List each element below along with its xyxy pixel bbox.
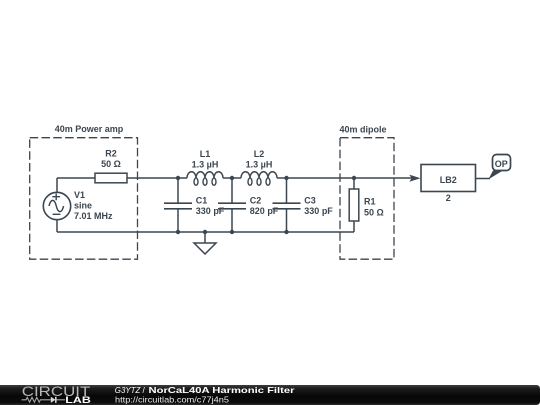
inductor L1 xyxy=(178,172,232,186)
footer title xyxy=(115,385,296,395)
svg-text:R2: R2 xyxy=(105,149,117,159)
svg-text:R1: R1 xyxy=(364,197,376,207)
block LB2 xyxy=(421,165,476,192)
svg-text:C1: C1 xyxy=(196,195,208,205)
voltage source V1 xyxy=(43,192,70,219)
svg-text:40m Power amp: 40m Power amp xyxy=(55,124,124,134)
svg-text:330 pF: 330 pF xyxy=(196,206,225,216)
svg-text:1.3 µH: 1.3 µH xyxy=(246,160,273,170)
svg-text:C2: C2 xyxy=(250,195,262,205)
svg-text:V1: V1 xyxy=(74,190,85,200)
node B junction dot xyxy=(230,176,234,180)
svg-text:OP: OP xyxy=(495,159,508,169)
node A junction dot xyxy=(176,176,180,180)
inductor L2 xyxy=(232,172,287,186)
label C3 value xyxy=(304,195,333,215)
label V1 (name, type, value) xyxy=(74,190,113,221)
node F junction dot (ground) xyxy=(203,230,207,234)
svg-text:L2: L2 xyxy=(254,149,265,159)
node C junction dot xyxy=(284,176,288,180)
resistor R2 xyxy=(95,173,127,183)
wire LB2 output xyxy=(476,178,491,180)
svg-text:50 Ω: 50 Ω xyxy=(364,207,384,217)
node H junction dot (C3 bottom) xyxy=(284,230,288,234)
wire node D to LB2 xyxy=(354,177,416,179)
svg-text:330 pF: 330 pF xyxy=(304,206,333,216)
svg-text:1.3 µH: 1.3 µH xyxy=(192,160,219,170)
wire V1 top lead xyxy=(56,178,58,192)
logo CircuitLab xyxy=(22,384,91,405)
svg-text:40m dipole: 40m dipole xyxy=(339,125,386,135)
label L1 value xyxy=(192,149,219,170)
svg-text:LB2: LB2 xyxy=(440,175,457,185)
label L2 value xyxy=(246,149,273,170)
wire R2 to node A xyxy=(127,177,178,179)
node D junction dot xyxy=(352,176,356,180)
svg-text:http://circuitlab.com/c77j4n5: http://circuitlab.com/c77j4n5 xyxy=(115,395,229,405)
node E junction dot (C1 bottom) xyxy=(176,230,180,234)
label R1 value xyxy=(364,197,384,218)
wire V1 bottom lead xyxy=(56,220,58,232)
svg-text:820 pF: 820 pF xyxy=(250,206,279,216)
wire node C to node D xyxy=(287,177,355,179)
capacitor C3 xyxy=(273,178,301,232)
svg-text:7.01 MHz: 7.01 MHz xyxy=(74,211,113,221)
wire V1 to R2 xyxy=(57,177,95,179)
footer bar xyxy=(0,385,540,405)
label R2 value xyxy=(101,149,121,170)
svg-text:50 Ω: 50 Ω xyxy=(101,159,121,169)
node G junction dot (C2 bottom) xyxy=(230,230,234,234)
svg-text:C3: C3 xyxy=(304,195,316,205)
capacitor C1 xyxy=(164,178,192,232)
flag OP tail xyxy=(489,171,504,180)
capacitor C2 xyxy=(218,178,246,232)
resistor R1 xyxy=(349,178,359,232)
enclosure box "40m Power amp" xyxy=(30,138,138,260)
label C2 value xyxy=(250,195,279,215)
bottom wire xyxy=(57,231,354,233)
enclosure box "40m dipole" xyxy=(340,138,394,260)
flag OP xyxy=(493,155,511,171)
label C1 value xyxy=(196,195,225,215)
arrowhead into LB2 xyxy=(409,175,420,182)
svg-text:sine: sine xyxy=(74,201,92,211)
svg-text:2: 2 xyxy=(446,193,451,203)
svg-text:G3YTZ: G3YTZ xyxy=(115,385,141,395)
svg-text:NorCaL40A Harmonic Filter: NorCaL40A Harmonic Filter xyxy=(149,385,296,395)
ground xyxy=(194,232,216,254)
svg-text:LAB: LAB xyxy=(65,395,91,405)
svg-text:L1: L1 xyxy=(200,149,211,159)
